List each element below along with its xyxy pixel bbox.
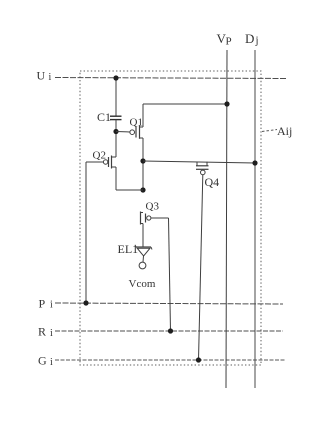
wire P_i row line	[55, 303, 283, 304]
junction on G_i	[196, 357, 201, 362]
svg-text:R: R	[38, 325, 46, 339]
wire EL1 to Vcom terminal	[142, 256, 145, 262]
transistor Q3 (p-type, gate at right)	[141, 212, 169, 225]
node B junction (Q1 drain / Q4 wire)	[140, 158, 145, 163]
wire top horizontal to V_P	[143, 103, 227, 105]
net U_i label	[37, 69, 52, 84]
svg-text:EL1: EL1	[118, 242, 139, 256]
junction on V_P line	[224, 101, 229, 106]
svg-text:Q2: Q2	[93, 150, 106, 162]
net G_i label	[38, 354, 53, 369]
wire Q1 drain down to node B	[142, 138, 144, 190]
transistor Q1 (p-type, gate at left)	[116, 126, 143, 139]
node C junction (Q2 / Q3)	[140, 187, 145, 192]
capacitor C1	[110, 116, 122, 119]
wire Q1 source up to V_P row wire	[142, 104, 144, 127]
net P_i label	[39, 297, 54, 311]
wire Q3 gate down to R_i	[169, 218, 171, 331]
junction on P_i	[83, 300, 88, 305]
terminal circle Vcom	[139, 262, 146, 269]
wire U_i row line	[55, 78, 286, 79]
svg-text:Q4: Q4	[205, 175, 220, 189]
junction on R_i	[168, 328, 173, 333]
svg-text:P: P	[39, 297, 46, 311]
node A junction (C1 / Q1 gate / Q2)	[113, 129, 118, 134]
junction on D_j line	[252, 160, 257, 165]
svg-text:i: i	[50, 300, 53, 311]
wire Q3 drain down to EL1	[142, 224, 144, 248]
wire Q2 gate down to P_i	[85, 162, 87, 303]
transistor Q4 (p-type, gate below)	[196, 162, 209, 175]
svg-text:Q3: Q3	[146, 201, 160, 213]
svg-text:j: j	[255, 35, 259, 47]
wire V_P column line	[226, 50, 227, 388]
net D_j label	[245, 31, 259, 47]
svg-text:i: i	[49, 72, 52, 83]
svg-text:D: D	[245, 31, 254, 46]
transistor Q2 (p-type, gate at left)	[86, 156, 116, 169]
net R_i label	[38, 325, 53, 340]
wire R_i row line	[55, 330, 283, 332]
wire C1 bottom plate down to node A	[115, 120, 117, 157]
label Aij	[262, 124, 292, 138]
svg-text:U: U	[37, 69, 46, 83]
wire node B right to D_j (through Q4)	[143, 161, 255, 163]
svg-text:i: i	[50, 328, 53, 339]
net V_P label	[217, 31, 232, 48]
svg-text:Vcom: Vcom	[129, 278, 156, 290]
svg-text:i: i	[50, 357, 53, 368]
junction on U_i at x=116	[113, 75, 118, 80]
svg-text:P: P	[226, 36, 232, 48]
wire Q4 gate down to G_i	[199, 175, 203, 360]
svg-text:C1: C1	[97, 110, 111, 124]
svg-text:G: G	[38, 354, 47, 368]
wire Q2 bottom down then right to node C	[116, 167, 143, 190]
EL element EL1 (diode)	[135, 245, 152, 256]
pixel boundary box Aij (dashed)	[80, 71, 261, 365]
wire G_i row line	[55, 359, 286, 361]
wire from U_i junction down to C1 top plate	[115, 78, 117, 116]
svg-text:Aij: Aij	[277, 124, 292, 138]
wire D_j column line	[254, 50, 256, 388]
